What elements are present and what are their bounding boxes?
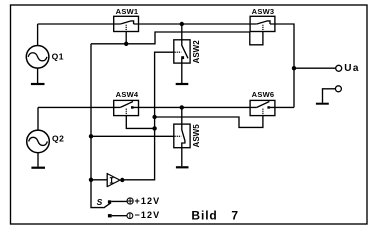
ground Q2 (31, 167, 45, 169)
ASW2 contact (181, 56, 184, 59)
wire to +12V terminal (111, 200, 127, 202)
wire bus1 mid segment (134, 23, 257, 25)
wire control net S: left vertical and ASW1/ASW3 control routing (91, 32, 263, 45)
ASW4 box (114, 100, 139, 115)
terminal -12V bar (129, 213, 131, 219)
U1 input bar (106, 173, 108, 187)
ASW2 box (174, 40, 190, 63)
wire ASW2 top pin (181, 24, 183, 40)
wire Q2 bottom stub (37, 153, 39, 167)
ASW4 arm (120, 102, 133, 108)
wire ground terminal (323, 89, 336, 103)
wire inverter output net (124, 52, 173, 180)
S arm (104, 203, 111, 208)
ground right (316, 103, 329, 105)
wire ASW5 control (91, 135, 174, 137)
node dot bus1/ASW2 (180, 22, 184, 26)
ASW5 control dotted line (175, 135, 182, 137)
wire bus2 right segment (270, 106, 294, 108)
svg-text:7: 7 (231, 208, 238, 222)
switch ASW2 (vertical, open) (174, 24, 190, 84)
wire bus2 left segment (38, 106, 120, 108)
generator Q2 (27, 107, 50, 167)
wire ASW2 ground stub (181, 63, 183, 83)
node dot S/ASW5 control (89, 134, 93, 138)
ground Q1 (31, 83, 45, 85)
ASW2 arm (182, 40, 188, 59)
ASW2 control dotted line (175, 51, 182, 53)
ground ASW2 (176, 83, 189, 85)
ASW3 arm and contact (257, 21, 270, 24)
U1 inversion bubble (120, 178, 124, 182)
generator Q1 (26, 24, 49, 84)
svg-text:ASW6: ASW6 (252, 90, 275, 99)
ASW3 control dotted line (262, 25, 264, 32)
wire S vertical (91, 44, 104, 208)
wire ASW5 top pin (181, 107, 183, 124)
svg-text:−12V: −12V (135, 210, 161, 220)
svg-text:ASW2: ASW2 (192, 40, 201, 64)
terminal Ua (336, 65, 342, 71)
ASW6 contact (267, 106, 270, 109)
svg-text:Q2: Q2 (52, 134, 64, 144)
node dot S/inverter input (89, 178, 93, 182)
svg-text:Bild: Bild (191, 208, 217, 222)
svg-text:Ua: Ua (344, 63, 360, 74)
ASW1 box (114, 16, 139, 31)
wire bus1 right segment + output vertical (270, 24, 294, 107)
inverter U1 (107, 173, 124, 187)
wire output to Ua (294, 67, 336, 69)
wire Q2 top riser (37, 107, 39, 130)
terminal -12V circle (127, 213, 133, 219)
wire inverter input (91, 179, 107, 181)
terminal ground reference (335, 86, 341, 92)
ASW6 box (250, 100, 275, 115)
ASW4 control dotted line (125, 109, 127, 116)
ground ASW5 (176, 166, 189, 168)
wire ASW4 control drop (126, 116, 154, 129)
switch ASW1 (closed) (114, 16, 139, 31)
wire ASW6 control routing (155, 116, 263, 128)
svg-text:+12V: +12V (135, 196, 161, 206)
wire bus2 mid segment (134, 106, 257, 108)
U1 triangle (107, 174, 120, 187)
terminal +12V circle (127, 198, 133, 204)
switch ASW4 (open) (114, 100, 139, 115)
node dot inverter/ASW4 (152, 126, 156, 130)
wire Q1 bottom stub (37, 68, 39, 83)
svg-text:ASW3: ASW3 (252, 7, 275, 16)
ASW3 box (250, 16, 275, 31)
wire ASW1 control drop (125, 32, 127, 44)
switch ASW5 (vertical, closed) (174, 107, 190, 167)
S contact -12V (108, 214, 112, 217)
switch S (104, 198, 134, 219)
svg-text:ASW4: ASW4 (116, 90, 139, 99)
svg-text:Q1: Q1 (52, 52, 64, 62)
switch ASW6 (open) (250, 100, 275, 115)
wire Q1 top riser (37, 24, 39, 46)
wire ASW5 ground stub (181, 148, 183, 167)
U1 label 1 (110, 178, 114, 183)
svg-text:ASW5: ASW5 (192, 124, 201, 148)
S contact +12V (108, 200, 111, 203)
ASW6 arm (257, 102, 270, 108)
ASW1 control dotted line (125, 25, 127, 32)
node dot inverter/ASW6 (152, 115, 156, 119)
switch ASW3 (closed) (250, 16, 275, 31)
wire to -12V terminal (112, 215, 127, 217)
wire bus1 left segment (38, 23, 121, 25)
ASW5 arm and contact (182, 124, 185, 148)
svg-text:S: S (97, 197, 103, 207)
svg-text:ASW1: ASW1 (116, 7, 139, 16)
ASW4 contact (131, 106, 134, 109)
terminal +12V cross (127, 198, 133, 204)
ASW2 bottom stub (181, 59, 183, 64)
ASW5 box (174, 124, 190, 148)
node dot ASW1 control (124, 42, 128, 46)
node dot output/Ua (292, 66, 296, 70)
node dot bus2/ASW5 (180, 105, 184, 109)
ASW1 arm and contact (120, 21, 133, 24)
ASW6 control dotted line (262, 109, 264, 116)
